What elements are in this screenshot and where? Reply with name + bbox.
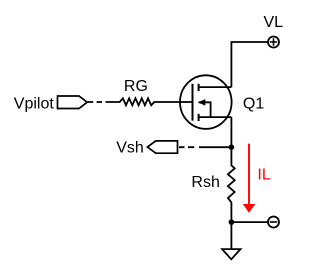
- transistor Q1 drain bar: [199, 86, 232, 88]
- node Vsh junction: [229, 144, 235, 150]
- label Vsh: [116, 140, 144, 157]
- resistor Rsh: [228, 117, 235, 222]
- svg-text:Rsh: Rsh: [191, 174, 219, 191]
- transistor Q1 source channel tick: [198, 114, 200, 121]
- current arrow IL: [243, 144, 255, 213]
- transistor Q1 gate bar: [192, 84, 194, 121]
- svg-text:Vsh: Vsh: [116, 140, 144, 157]
- svg-text:Q1: Q1: [243, 95, 264, 112]
- svg-text:RG: RG: [124, 78, 148, 95]
- label Vpilot: [14, 96, 55, 113]
- ground: [222, 249, 240, 259]
- node bottom junction: [229, 219, 235, 225]
- svg-text:VL: VL: [264, 14, 284, 31]
- wire gate lead: [179, 101, 193, 103]
- label Rsh: [191, 174, 219, 191]
- label VL: [264, 14, 284, 31]
- wire to ground: [230, 222, 232, 249]
- label IL: [257, 166, 270, 183]
- wire dashed Vsh link: [179, 146, 231, 148]
- transistor Q1 drain channel tick: [198, 84, 200, 91]
- wire to minus terminal: [231, 221, 268, 223]
- op: MOSFET body circle Q1: [180, 75, 232, 129]
- port flag Vpilot: [58, 96, 88, 109]
- transistor Q1 bulk arrow: [198, 99, 206, 106]
- port flag Vsh: [147, 141, 177, 153]
- label RG: [124, 78, 148, 95]
- svg-text:Vpilot: Vpilot: [14, 96, 55, 113]
- wire dashed Vpilot to RG: [88, 101, 102, 103]
- label Q1: [243, 95, 264, 112]
- terminal VL plus: [268, 37, 279, 48]
- resistor RG: [106, 98, 180, 105]
- wire drain to VL: [231, 42, 268, 87]
- transistor Q1 source bar: [199, 116, 232, 118]
- terminal minus: [268, 217, 279, 228]
- svg-text:IL: IL: [257, 166, 270, 183]
- transistor Q1 bulk wire: [199, 102, 211, 117]
